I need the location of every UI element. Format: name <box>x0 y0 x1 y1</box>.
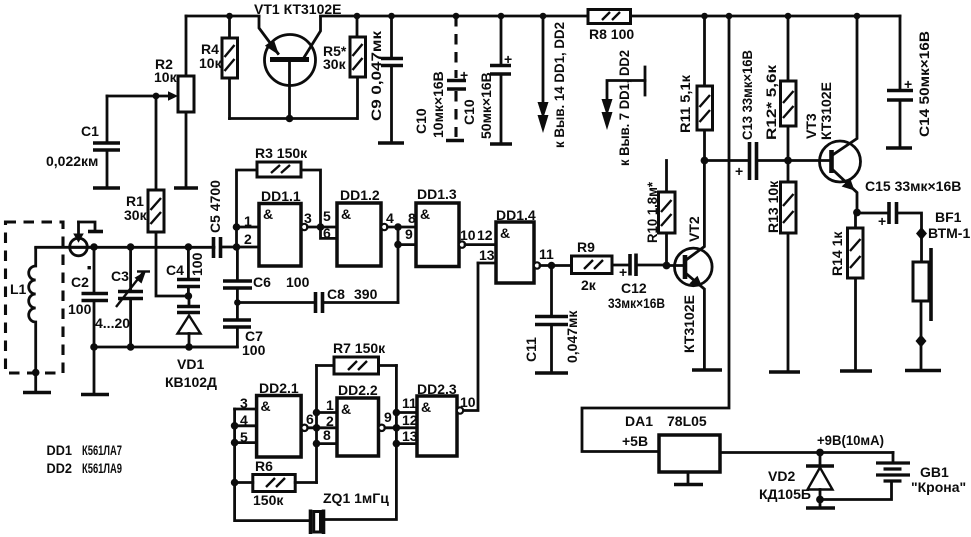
node VT1 emitter bottom <box>286 115 294 123</box>
svg-text:C12: C12 <box>621 280 647 296</box>
svg-text:&: & <box>261 398 271 414</box>
svg-text:VT3: VT3 <box>803 113 819 139</box>
transistor VT3 <box>820 13 861 213</box>
wire +5V feed riser from DA1 <box>582 13 732 452</box>
svg-text:5: 5 <box>323 208 331 224</box>
wire DD2.1 input bus <box>235 409 311 521</box>
svg-text:&: & <box>341 401 351 417</box>
wire DD2.2 out to DD2.3 pin12 <box>385 426 417 429</box>
node R11/R10/VT2 collector <box>701 157 709 165</box>
wire DD1.3 pin9 stub <box>398 243 416 246</box>
svg-text:DD1.2: DD1.2 <box>340 187 380 203</box>
svg-text:100: 100 <box>286 274 310 290</box>
svg-text:R7 150к: R7 150к <box>333 340 386 356</box>
svg-text:C2: C2 <box>71 274 89 290</box>
svg-text:3: 3 <box>304 210 312 226</box>
inductor L1 <box>29 248 40 390</box>
resistor R3 <box>257 162 321 227</box>
svg-text:C6: C6 <box>253 274 271 290</box>
svg-text:10к: 10к <box>154 69 178 85</box>
svg-text:C9 0,047мк: C9 0,047мк <box>368 30 384 121</box>
svg-text:C13 33мк×16В: C13 33мк×16В <box>739 50 755 140</box>
resistor R7 <box>317 357 397 374</box>
wire +5V top rail mid part <box>321 15 589 18</box>
svg-text:150к: 150к <box>253 492 284 508</box>
svg-text:100: 100 <box>189 252 205 276</box>
svg-text:+: + <box>460 67 468 83</box>
svg-text:9: 9 <box>384 409 392 425</box>
svg-text:R6: R6 <box>255 458 273 474</box>
svg-text:6: 6 <box>323 225 331 241</box>
svg-text:BF1: BF1 <box>935 209 962 225</box>
svg-text:2к: 2к <box>581 277 597 293</box>
capacitor C10 (50мк) <box>490 13 512 144</box>
capacitor C6 <box>223 247 252 319</box>
gate DD2.2 <box>337 398 385 456</box>
capacitor C9 <box>378 13 404 143</box>
resistor R6 <box>231 475 317 492</box>
svg-text:&: & <box>500 225 510 241</box>
wire DD2.3 pin13 stub <box>396 442 417 445</box>
wire +5V top rail left part <box>186 15 259 18</box>
ground L1 <box>23 391 51 395</box>
svg-text:8: 8 <box>323 427 331 443</box>
resistor R13 <box>769 161 800 373</box>
variable capacitor C3 <box>116 243 150 351</box>
svg-text:КТ3102Е: КТ3102Е <box>681 295 697 353</box>
wire DD2.1 pin5 stub <box>235 441 257 444</box>
svg-text:R9: R9 <box>577 239 595 255</box>
resistor R11 <box>697 13 713 161</box>
transistor VT1 <box>259 17 321 119</box>
svg-text:К561ЛА7: К561ЛА7 <box>82 442 122 458</box>
svg-text:ВТМ-1: ВТМ-1 <box>928 225 970 241</box>
svg-text:C5 4700: C5 4700 <box>207 180 223 233</box>
svg-text:C14 50мк×16В: C14 50мк×16В <box>916 31 932 137</box>
svg-text:VT1 КТ3102Е: VT1 КТ3102Е <box>254 1 342 17</box>
wire DD1.4 out <box>540 264 571 267</box>
wire DD1.3 out to DD1.4 pin12 <box>465 243 496 246</box>
svg-text:9: 9 <box>405 226 413 242</box>
svg-text:C10: C10 <box>461 99 477 125</box>
wire DD1.4 pin13 stub <box>478 262 496 265</box>
svg-text:VD1: VD1 <box>177 356 204 372</box>
gate DD2.1 <box>257 396 308 458</box>
svg-text:DD1.4: DD1.4 <box>496 207 536 223</box>
resistor R8 (series in rail) <box>588 10 631 24</box>
svg-text:+: + <box>504 51 512 67</box>
svg-text:+9В(10мА): +9В(10мА) <box>817 432 884 448</box>
wire DD2.1 pin4 stub <box>235 424 257 427</box>
capacitor C5 (series) <box>214 237 260 258</box>
resistor R10 <box>659 161 676 266</box>
svg-text:DD2.3: DD2.3 <box>417 381 457 397</box>
wire main tank node line <box>70 246 214 249</box>
svg-text:100: 100 <box>68 301 92 317</box>
svg-text:12: 12 <box>477 227 493 243</box>
svg-text:R10 1,8м*: R10 1,8м* <box>644 181 660 243</box>
svg-text:50мк×16В: 50мк×16В <box>478 72 494 139</box>
ground VT2 emitter <box>692 368 722 372</box>
earphone BF1 <box>905 227 941 371</box>
svg-text:+: + <box>735 163 743 179</box>
svg-text:R8 100: R8 100 <box>589 26 634 42</box>
transistor VT2 <box>667 161 713 369</box>
svg-text:4...20: 4...20 <box>95 315 130 331</box>
svg-text:КД105Б: КД105Б <box>759 486 811 502</box>
svg-text:R3 150к: R3 150к <box>255 145 308 161</box>
svg-text:C8: C8 <box>327 286 345 302</box>
svg-text:C1: C1 <box>81 123 99 139</box>
svg-text:2: 2 <box>244 231 252 247</box>
capacitor C8 (series) <box>237 292 398 313</box>
wire DD1.2 pin6 stub <box>321 227 338 238</box>
svg-text:C15 33мк×16В: C15 33мк×16В <box>865 178 961 194</box>
diode VD2 <box>806 453 835 509</box>
svg-text:DD1.1: DD1.1 <box>261 188 301 204</box>
capacitor C4 <box>177 243 200 300</box>
svg-text:390: 390 <box>354 286 378 302</box>
jack connector (screen contact) <box>70 222 103 256</box>
capacitor C10 (dashed, optional) <box>446 13 468 141</box>
svg-text:11: 11 <box>402 395 417 411</box>
wire DD2.1 out to DD2.2 pin2 <box>308 426 337 429</box>
svg-text:КВ102Д: КВ102Д <box>165 374 217 390</box>
svg-text:VT2: VT2 <box>686 216 702 242</box>
wire tank bottom line <box>94 346 237 349</box>
svg-text:C4: C4 <box>166 262 184 278</box>
svg-text:1: 1 <box>244 213 252 229</box>
wire pin9 riser to C8 <box>397 227 400 303</box>
svg-text:10: 10 <box>460 227 476 243</box>
svg-text:VD2: VD2 <box>768 468 795 484</box>
gate DD1.2 <box>337 203 387 266</box>
arrow to pin 14 DD1,DD2 <box>538 13 549 133</box>
capacitor C7 <box>189 320 251 347</box>
svg-text:R12* 5,6к: R12* 5,6к <box>763 64 779 140</box>
wire VT1 stage bottom <box>230 117 357 120</box>
wire DD2.1 pin3 stub <box>235 408 257 411</box>
node VT3 emitter <box>853 209 861 217</box>
wire DD1.1 out to DD1.2 in <box>308 226 338 229</box>
svg-text:4: 4 <box>386 210 394 226</box>
svg-text:8: 8 <box>408 210 416 226</box>
svg-text:DA1: DA1 <box>625 413 653 429</box>
svg-text:78L05: 78L05 <box>667 413 707 429</box>
regulator DA1 78L05 <box>659 435 893 485</box>
gate DD2.3 <box>417 396 463 456</box>
svg-text:10к: 10к <box>199 55 223 71</box>
svg-text:L1: L1 <box>10 281 27 297</box>
resistor R5 <box>350 13 366 119</box>
svg-text:DD2.1: DD2.1 <box>259 380 299 396</box>
svg-text:4: 4 <box>240 412 248 428</box>
capacitor C13 (series electrolytic) <box>705 142 832 180</box>
resistor R9 <box>572 256 630 274</box>
svg-text:ZQ1 1мГц: ZQ1 1мГц <box>323 490 389 506</box>
capacitor C1 <box>93 96 120 188</box>
gate DD1.4 <box>496 222 540 283</box>
svg-text:5: 5 <box>240 429 248 445</box>
svg-text:30к: 30к <box>323 56 347 72</box>
wire DD2.3 pin11 stub <box>396 411 417 414</box>
svg-text:C11: C11 <box>523 337 539 362</box>
svg-text:R14 1к: R14 1к <box>829 231 845 276</box>
shield (dashed screen box) <box>6 222 64 373</box>
node R12/R13/VT3 base <box>784 157 792 165</box>
wire DD1.1 pin1 stub <box>237 226 260 229</box>
resistor R12 <box>781 13 797 161</box>
svg-text:+: + <box>904 76 912 92</box>
wire DD2.2 pin1 stub <box>317 411 338 414</box>
battery GB1 <box>820 453 910 500</box>
node DD1.1 input <box>233 223 241 231</box>
svg-text:C10: C10 <box>413 108 429 134</box>
svg-text:30к: 30к <box>124 207 148 223</box>
svg-text:1: 1 <box>326 397 334 413</box>
wire L1 top to jack <box>36 246 90 249</box>
wire DD2.2 input riser (R7 left leg) <box>315 366 318 483</box>
wire feedback riser from DD2.3 out to pin13 <box>463 263 478 411</box>
svg-text:+5В: +5В <box>622 433 648 449</box>
svg-text:R11 5,1к: R11 5,1к <box>677 74 693 133</box>
svg-text:C3: C3 <box>111 268 129 284</box>
gate DD1.3 <box>416 203 465 267</box>
svg-text:&: & <box>341 206 351 222</box>
svg-text:КТ3102Е: КТ3102Е <box>818 82 834 140</box>
svg-text:10мк×16В: 10мк×16В <box>430 71 446 138</box>
svg-text:"Крона": "Крона" <box>911 479 966 495</box>
gate DD1.1 <box>259 204 307 267</box>
svg-text:100: 100 <box>242 342 266 358</box>
varicap VD1 <box>177 296 201 351</box>
wire +5V top rail right part <box>631 15 901 18</box>
resistor R1 <box>148 96 188 296</box>
svg-text:&: & <box>263 206 273 222</box>
svg-text:к Выв. 14 DD1, DD2: к Выв. 14 DD1, DD2 <box>551 22 567 148</box>
svg-text:DD1: DD1 <box>47 442 73 458</box>
svg-text:12: 12 <box>402 412 418 428</box>
capacitor C15 (series electrolytic) <box>857 202 922 262</box>
wire R3 input riser <box>237 170 258 247</box>
quartz crystal ZQ1 <box>311 510 324 535</box>
capacitor C12 (series electrolytic) <box>619 254 667 281</box>
svg-text:к Выв. 7 DD1, DD2: к Выв. 7 DD1, DD2 <box>616 50 632 166</box>
wire DD1.2 out to DD1.3 in <box>388 226 417 229</box>
svg-text:33мк×16В: 33мк×16В <box>608 295 665 311</box>
svg-text:К561ЛА9: К561ЛА9 <box>82 460 122 476</box>
capacitor C2 <box>81 243 109 394</box>
svg-text:13: 13 <box>479 247 495 263</box>
wire DD2.2 pin8 stub <box>317 442 338 445</box>
resistor R14 <box>840 213 872 372</box>
capacitor C14 <box>886 16 913 148</box>
svg-text:DD1.3: DD1.3 <box>417 186 457 202</box>
svg-text:11: 11 <box>539 246 554 262</box>
wire R2 wiper <box>107 95 170 98</box>
svg-text:6: 6 <box>306 411 314 427</box>
svg-text:0,022км: 0,022км <box>46 153 98 169</box>
svg-text:&: & <box>421 399 431 415</box>
svg-text:DD2: DD2 <box>47 460 73 476</box>
resistor R4 <box>222 13 238 119</box>
svg-text:DD2.2: DD2.2 <box>338 382 378 398</box>
potentiometer R2 <box>174 16 198 188</box>
svg-text:GB1: GB1 <box>920 464 949 480</box>
node +9V <box>816 449 824 457</box>
svg-text:+: + <box>878 213 886 229</box>
terminal bar and arrow to pin 7 DD1,DD2 <box>602 67 646 130</box>
capacitor C11 <box>535 266 568 374</box>
svg-text:&: & <box>420 206 430 222</box>
svg-text:0,047мк: 0,047мк <box>564 310 580 363</box>
svg-text:R13 10к: R13 10к <box>765 180 781 233</box>
svg-text:+: + <box>619 264 627 280</box>
svg-text:3: 3 <box>240 395 248 411</box>
node VT2 base <box>663 262 671 270</box>
wire DD2.3 input riser <box>324 366 397 520</box>
svg-text:10: 10 <box>460 394 476 410</box>
svg-text:13: 13 <box>402 428 418 444</box>
